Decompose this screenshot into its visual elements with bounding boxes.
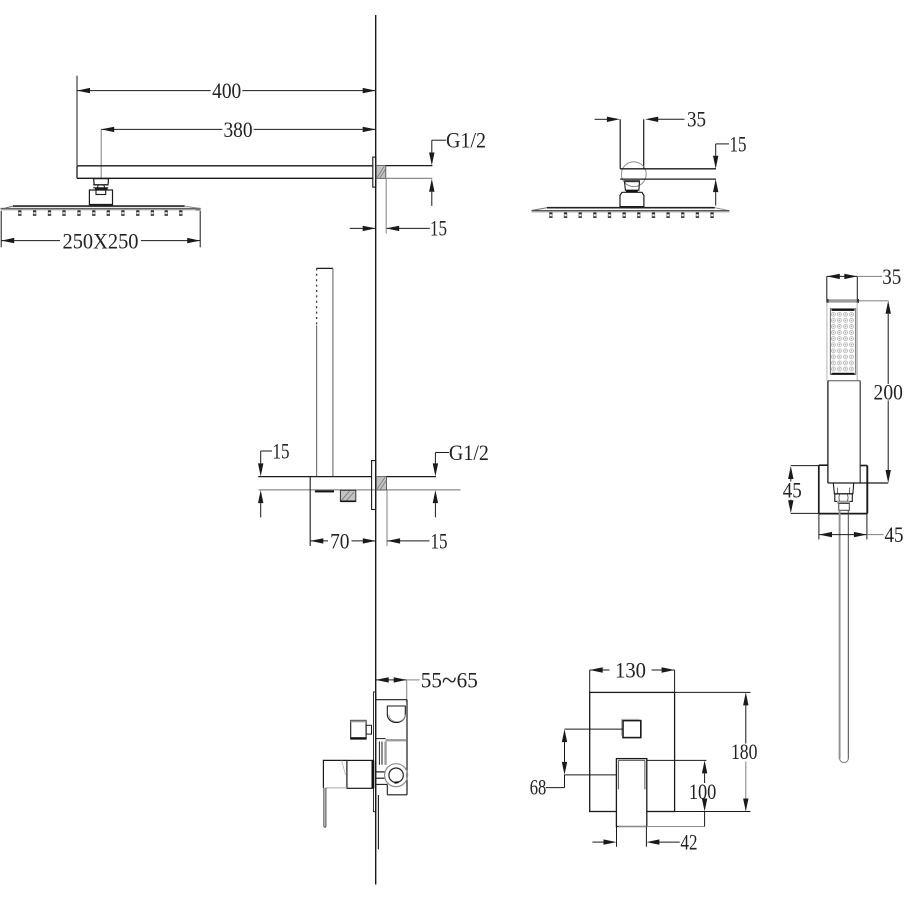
holder arm top line xyxy=(258,476,371,478)
handle lever upper part xyxy=(323,760,347,788)
ball joint collar xyxy=(93,184,108,186)
svg-text:400: 400 xyxy=(212,78,241,103)
arm front view bar xyxy=(620,169,716,179)
valve body right edge xyxy=(406,700,408,795)
hose connector under holder (hatched) xyxy=(340,490,355,501)
arm stub right of wall bottom line (grey) xyxy=(386,177,433,179)
dim 250X250 line right xyxy=(141,240,200,242)
head connector vertical left xyxy=(619,119,621,169)
arm stub right of wall top line xyxy=(386,165,433,167)
svg-text:G1/2: G1/2 xyxy=(446,127,486,152)
handle lever grip bar xyxy=(323,788,325,826)
svg-text:15: 15 xyxy=(431,528,448,553)
dim 100 extension bottom (grey) xyxy=(618,826,704,828)
head swivel dark band xyxy=(626,190,638,192)
dim 35 handshower tail and text xyxy=(857,275,882,277)
shower arm horizontal bar xyxy=(77,166,373,179)
dim 380 arrow left xyxy=(101,127,114,132)
diverter button front view xyxy=(623,721,641,738)
hand shower body step xyxy=(828,380,860,382)
dim 400 line left segment xyxy=(77,90,211,92)
hand shower hose xyxy=(839,510,841,758)
dim 55~65 extension (grey) xyxy=(406,680,408,703)
svg-text:35: 35 xyxy=(687,107,706,132)
hose collar (grey band) xyxy=(837,501,850,504)
ball joint dark band xyxy=(95,188,108,190)
svg-text:250X250: 250X250 xyxy=(63,228,139,253)
hand shower wand left edge spray part (dotted) xyxy=(316,268,318,325)
dim 42 extensions xyxy=(616,827,618,847)
dim 380 line left segment xyxy=(101,128,222,130)
dim 68 vertical line xyxy=(562,729,567,742)
cartridge inner circle xyxy=(389,768,403,782)
svg-text:180: 180 xyxy=(731,739,758,764)
hand shower wand left edge lower part xyxy=(316,325,318,476)
hand shower upper sides xyxy=(826,303,828,381)
hand shower bottom tip xyxy=(315,490,334,492)
wall line (vertical wall section line) xyxy=(375,15,377,885)
shower head plate right corner mark xyxy=(196,208,201,211)
svg-text:15: 15 xyxy=(430,216,447,241)
dim 250X250 extension right xyxy=(199,211,201,247)
shower head plate left slope xyxy=(1,206,13,209)
mixer handle sleeve lines xyxy=(618,759,645,761)
dim 400 line right segment xyxy=(242,90,375,92)
valve mid grey bar xyxy=(386,739,407,741)
dim 100 extension top xyxy=(647,759,707,761)
valve stem channel verticals xyxy=(378,742,380,765)
shower head plate front face band xyxy=(1,208,201,210)
pipe below valve xyxy=(377,795,379,849)
dim 200 line upper xyxy=(886,301,891,314)
shower head nozzles (right figure) xyxy=(549,213,552,215)
dim 180 extensions xyxy=(675,691,751,693)
holder stub right of wall top line xyxy=(387,476,436,478)
head plate left slope (right figure) xyxy=(532,208,547,211)
shower head plate back edge xyxy=(13,205,185,207)
svg-text:15: 15 xyxy=(730,131,747,156)
dim 250X250 extension left xyxy=(0,211,2,247)
dim 100 line xyxy=(702,760,707,773)
svg-text:G1/2: G1/2 xyxy=(449,440,489,465)
dim 15 holder-right line xyxy=(387,538,400,543)
dim 130 line xyxy=(590,667,603,672)
hand shower top cap xyxy=(827,299,859,302)
dim 35 handshower extension left xyxy=(826,276,828,299)
hose connector stage1 (cone) xyxy=(833,483,853,494)
valve stem grey vertical xyxy=(384,742,386,765)
swivel ball circle xyxy=(621,162,646,187)
head swivel nut xyxy=(624,181,639,190)
dim 130 extensions xyxy=(589,670,591,692)
dim 15 (wall stub) line right part xyxy=(386,226,399,231)
holder arm left edge / 70 dim extension xyxy=(309,477,311,546)
holder up arrow left xyxy=(258,490,263,503)
dim 35 line left (head connector) xyxy=(595,118,608,120)
valve body bottom step xyxy=(376,783,387,785)
wall bracket for hand shower xyxy=(819,464,828,466)
valve stem lines to cartridge xyxy=(376,771,385,773)
dim 68 leader to button xyxy=(565,728,624,730)
diverter knob stem xyxy=(366,725,371,734)
dim 180 line xyxy=(743,692,748,705)
head plate back edge (right figure) xyxy=(547,207,715,209)
dim 15 right figure leader xyxy=(715,144,717,156)
head plate right slope (right figure) xyxy=(715,208,730,211)
dim 380 extension line (grey, through arm to ball joint) xyxy=(100,130,102,179)
dim 200 extension top (grey) xyxy=(859,300,889,302)
dim 15 holder-right extension (grey) xyxy=(386,490,388,546)
dim 45 left line xyxy=(788,466,793,479)
dim 35 handshower line xyxy=(827,274,840,279)
dim 45 bottom line xyxy=(819,532,832,537)
arm thickness up arrow xyxy=(429,179,434,192)
dim 15 extension (grey) xyxy=(385,179,387,234)
dim 42 line right xyxy=(646,839,659,844)
holder wall flange xyxy=(372,461,376,510)
dim 15 holder leader xyxy=(260,451,262,464)
hand shower wand top cap xyxy=(317,267,333,269)
dim 35 handshower extension right xyxy=(856,276,858,299)
dim 68 reference line at handle axis xyxy=(565,774,617,776)
spray face dot grid 4x10 xyxy=(831,312,835,316)
diverter knob side view xyxy=(351,720,366,739)
cartridge outer circle xyxy=(385,764,408,787)
dim 380 arrow right xyxy=(363,127,376,132)
shower head connector block xyxy=(89,190,112,205)
dim 200 line lower xyxy=(887,401,889,471)
G1/2 hatched nipple through wall xyxy=(376,166,386,179)
dim 15 right figure up arrow xyxy=(713,179,718,192)
hand shower bottom line xyxy=(828,482,888,484)
svg-text:45: 45 xyxy=(783,478,802,503)
svg-text:70: 70 xyxy=(330,528,349,553)
svg-text:55~65: 55~65 xyxy=(421,665,478,697)
dim 380 line right segment xyxy=(254,128,376,130)
head connector vertical right xyxy=(643,119,645,169)
dim 35 line right xyxy=(645,117,658,122)
svg-text:45: 45 xyxy=(885,522,904,547)
svg-text:15: 15 xyxy=(273,438,290,463)
head plate front band (right figure) xyxy=(532,210,730,212)
escutcheon plate edge view xyxy=(374,692,376,812)
svg-text:68: 68 xyxy=(530,775,547,800)
hose connector hex nut xyxy=(835,494,853,502)
dim 45 bottom extensions xyxy=(818,514,820,540)
G1/2 leader holder xyxy=(434,453,436,465)
head mount block xyxy=(620,192,644,207)
valve mid thin line xyxy=(376,738,385,740)
holder up arrow right xyxy=(433,490,438,503)
svg-text:130: 130 xyxy=(615,657,646,682)
dim 15 (wall stub) line left part xyxy=(350,227,376,229)
shower head plate right slope xyxy=(185,206,201,209)
G1/2 leader top figure xyxy=(431,140,433,153)
wall flange of shower arm xyxy=(373,157,376,187)
dim 68 text leader xyxy=(564,775,566,788)
dim 42 line left xyxy=(592,841,603,843)
cartridge bottom dark mark xyxy=(395,781,399,784)
svg-text:35: 35 xyxy=(882,264,901,289)
svg-text:380: 380 xyxy=(223,117,252,142)
dim 45 left extensions xyxy=(791,465,819,467)
shower head nozzles (left figure) xyxy=(18,210,21,212)
dim 400 arrow left xyxy=(77,88,90,93)
spray face plate xyxy=(830,309,855,375)
dim 55~65 line xyxy=(376,677,389,682)
svg-text:42: 42 xyxy=(681,829,698,854)
handle block side view xyxy=(347,760,373,788)
holder arm bottom line (long, grey) xyxy=(259,489,461,491)
valve body top edge xyxy=(376,699,407,701)
hand shower lower body sides xyxy=(827,381,829,483)
holder hatched nipple through wall xyxy=(376,477,386,490)
hand shower wand right edge xyxy=(332,268,334,476)
dim 400 arrow right xyxy=(363,88,376,93)
mixer handle front view xyxy=(616,759,646,827)
escutcheon plate front view xyxy=(590,692,675,811)
valve body dome xyxy=(387,706,405,723)
ball joint upper cone xyxy=(94,179,109,185)
dim 400 extension line left xyxy=(76,76,78,166)
svg-text:100: 100 xyxy=(689,779,717,804)
dim 70 line xyxy=(310,538,323,543)
hose top fitting xyxy=(839,504,850,511)
dim 250X250 line left xyxy=(1,238,14,243)
